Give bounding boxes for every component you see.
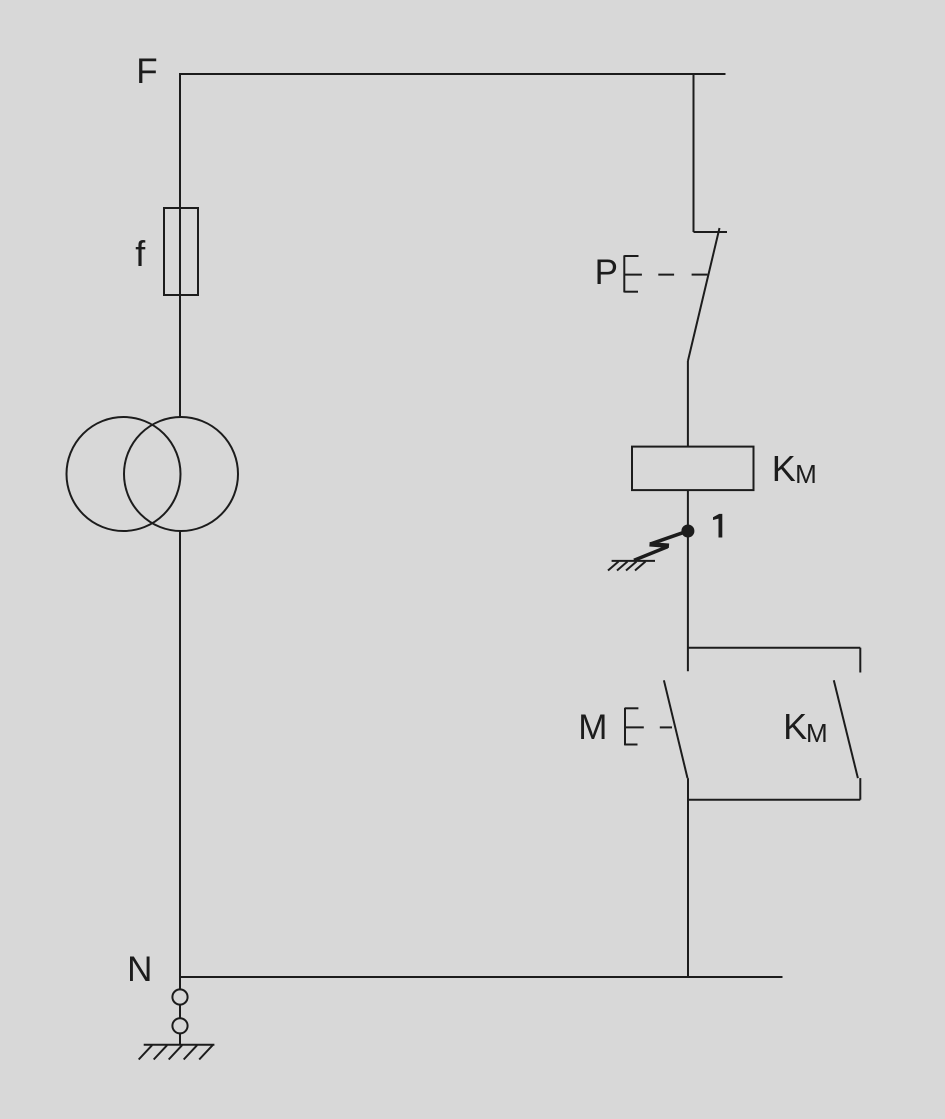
svg-text:M: M bbox=[578, 708, 607, 747]
svg-text:K: K bbox=[783, 706, 807, 747]
svg-text:M: M bbox=[806, 718, 828, 748]
svg-text:f: f bbox=[135, 233, 146, 274]
svg-text:P: P bbox=[595, 253, 618, 292]
svg-text:K: K bbox=[772, 448, 796, 489]
svg-text:F: F bbox=[136, 52, 157, 91]
svg-text:M: M bbox=[795, 459, 817, 489]
svg-text:N: N bbox=[127, 950, 152, 989]
